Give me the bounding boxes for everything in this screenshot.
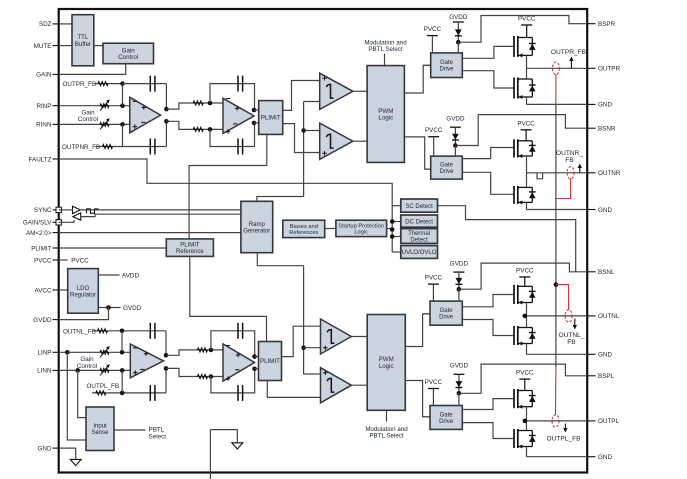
svg-text:PBTL Select: PBTL Select [368,46,402,53]
ground (left) [70,459,81,465]
pin BSPR [587,21,615,28]
wire U2 bottom feedback [210,123,255,147]
svg-text:PLIMIT: PLIMIT [261,115,281,122]
wire SYNC pin to buffer [59,209,73,211]
arrow OUTNL_FB sense [573,319,577,330]
wire bootstrap to BS pin (stage 3) [459,263,587,289]
wire RINN input [59,123,130,125]
wire bootstrap to BS pin (stage 4) [459,364,587,393]
wire cap to op-amp output + [165,84,167,110]
power net PVCC (gate drive 1) [424,26,442,53]
wire biases to startup logic [325,228,336,230]
transistor Q6 (low side) body diode [529,328,536,344]
wire bus to UVLO/OVLO [392,251,401,253]
wire PWM to Gate Drive 1 [404,65,430,93]
svg-text:LDO: LDO [77,286,90,292]
power net GVDD (stage 3) [450,260,469,289]
svg-text:PVCC: PVCC [518,16,536,23]
wire output line (stage 3) [527,315,588,317]
wire Gate Drive 4 to low-side gate [462,423,514,439]
svg-text:GND: GND [598,102,612,109]
variable resistor RINP gain [100,104,109,108]
svg-text:GVDD: GVDD [449,14,468,21]
transistor Q6 (low side) [514,326,532,346]
Thermal Detect block [401,229,438,244]
transistor Q7 (high side) body diode [529,391,536,407]
PWM Logic block (left ch) [367,315,405,411]
wire GND line (stage 3) [527,353,588,355]
diode bootstrap D3 [456,278,463,284]
diode bootstrap D4 [456,381,463,387]
Gain Control block (top) [103,43,154,64]
ground (center) [232,443,243,449]
svg-text:PVCC: PVCC [34,257,52,264]
svg-text:OUTNL_FB: OUTNL_FB [63,328,96,335]
pin GND (stage2) [587,207,612,214]
resistor OUTPNR_FB [103,145,113,149]
wire PWM input to Gate Drive 4 [423,416,430,418]
svg-text:Drive: Drive [439,315,454,321]
arrow OUTNR_FB sense [578,164,582,173]
wire low-side source to GND (stage 4) [526,447,528,457]
wire ramp to CMP3 + [304,347,321,349]
UVLO/OVLO block [401,246,438,259]
svg-text:OUTPL_FB: OUTPL_FB [87,383,120,390]
power net PVCC (gate drive 3) [425,275,443,302]
transistor Q3 (high side) body diode [529,141,536,156]
wire GVDD to Gate Drive 2 [454,146,456,157]
wire PWM to Gate Drive 4 [405,381,430,417]
wire red feedback OUTPL [555,367,557,415]
svg-text:Gate: Gate [440,163,454,169]
resistor OUTPR_FB [98,82,108,86]
power net PVCC (gate drive 4) [425,379,443,406]
svg-text:Gate: Gate [440,308,454,314]
node U3 out+ [164,353,169,358]
svg-text:GND: GND [598,352,612,359]
wire ramp to CMP4 - [304,372,321,375]
svg-text:GND: GND [598,454,612,461]
wire CMP4 out to PWM logic [351,384,367,386]
wire cap to op-amp output - [165,121,167,146]
node OUTNL_FB junction [120,329,125,334]
wire output to low-side drain (stage 3) [526,316,528,328]
node output junction (stage 4) [523,419,528,424]
LDO Regulator block [68,269,99,314]
wire CMP3 out to PWM logic [351,336,367,338]
wire Gate Drive 1 to low-side gate [462,71,514,88]
svg-text:OUTPR_FB: OUTPR_FB [551,49,587,56]
wire AVDD output [98,274,119,276]
svg-text:AVDD: AVDD [122,273,139,280]
transistor Q5 (high side) [514,285,532,305]
wire output line (stage 1) [527,67,588,69]
svg-text:LINP: LINP [38,350,52,357]
power net PVCC (output FETs stage 4) [516,370,534,391]
wire OUTPNR_FB net [96,146,167,148]
wire PWM input to Gate Drive 1 [423,64,431,66]
svg-text:Input: Input [93,424,107,430]
power net PVCC (output FETs stage 2) [517,120,535,141]
svg-text:Thermal: Thermal [408,231,430,237]
SC Detect block [401,199,438,212]
svg-text:GAIN: GAIN [36,72,52,79]
wire OUTPR_FB net [95,83,123,85]
svg-text:BSNL: BSNL [598,269,615,276]
wire ramp to CMP1 - [304,101,320,103]
wire high-side source to output (stage 4) [526,407,528,421]
power net PVCC (output FETs stage 1) [518,16,536,38]
pin GVDD [33,317,58,324]
variable resistor RINN gain [100,123,109,127]
op-amp U3 (left ch first stage) [130,344,163,378]
svg-text:GVDD: GVDD [450,260,469,267]
wire LINP to Input Sense [67,352,86,440]
capacitor feedback (LINP path) [150,323,155,339]
pin RINP [36,103,58,110]
wire output to low-side drain (stage 4) [526,421,528,431]
node U1 out+ [164,107,169,112]
resistor second stage bottom (right ch) [193,127,203,131]
wire Gate Drive 4 to high-side gate [462,399,514,410]
node RINN junction [120,122,125,127]
svg-text:PLIMIT: PLIMIT [31,245,51,252]
wire GND line (stage 4) [527,456,588,458]
transistor Q3 (high side) [514,139,532,158]
wire U3+ to second stage [166,350,223,355]
svg-text:RINN: RINN [36,122,52,129]
wire U4- to PLIMIT [255,368,259,370]
wire Gate Drive 1 to high-side gate [462,46,514,58]
wire OUTNR drain join notch [537,173,543,179]
svg-text:PVCC: PVCC [71,258,89,265]
wire low-side source to GND (stage 2) [526,202,528,209]
svg-text:References: References [289,230,318,236]
power net GVDD (stage 4) [450,362,469,393]
transistor Q4 (low side) body diode [529,187,536,202]
wire U2- to PLIMIT [254,122,259,124]
comparator CMP1 (right ch P) [320,73,353,109]
svg-text:OUTNR: OUTNR [598,170,621,177]
svg-text:GVDD: GVDD [450,362,469,369]
node bootstrap junction (stage 3) [457,287,462,292]
wire FAULTZ to protection bus [59,159,393,252]
svg-text:PVCC: PVCC [425,379,443,386]
comparator CMP3 (left ch N) [321,319,352,354]
wire output line (stage 2) [527,172,588,174]
wire GAIN/SLV pin to buffer [59,220,74,222]
wire bus to DC Detect [392,221,401,223]
capacitor U2 bottom feedback [238,139,243,155]
op-amp U2 (right ch second stage) [223,98,254,133]
wire U4 top feedback [211,331,255,357]
capacitor U4 top feedback [238,323,243,339]
pin OUTPR [587,66,620,73]
wire output line (stage 4) [527,420,588,422]
svg-text:Reference: Reference [176,249,204,255]
node U2 out- [252,121,257,126]
pin GAIN/SLV [23,220,61,227]
transistor Q1 (high side) [514,36,532,57]
pin GAIN [36,72,59,79]
wire RINP input [59,105,130,107]
wire red feedback OUTNR [556,178,571,198]
wire PLIMIT Reference to PLIMIT (left ch) [190,256,267,341]
wire cap to op-amp output + [165,331,167,356]
pin OUTNL [587,313,620,320]
pin GND (stage4) [587,454,612,461]
wire GVDD to Gate Drive 1 [457,42,459,53]
power net PVCC (output FETs stage 3) [516,268,534,287]
svg-text:BSPL: BSPL [598,373,615,380]
svg-text:PBTL Select: PBTL Select [369,433,403,440]
pin PVCC [34,257,59,264]
svg-text:GVDD: GVDD [123,305,142,312]
svg-text:GND: GND [38,445,52,452]
wire low-side source to GND (stage 1) [526,97,528,104]
wire Gate Drive 2 to high-side gate [462,148,514,159]
buffer GAIN/SLV [73,213,81,220]
svg-text:Select: Select [149,434,167,441]
power net PVCC (gate drive 2) [425,127,443,156]
wire SC Detect to output stage bus [438,206,576,272]
wire Ramp Generator top feed [257,197,304,202]
wire OUTPL_FB to LINN node [121,370,123,393]
capacitor feedback (RINN path) [150,139,155,155]
node bootstrap junction (stage 1) [456,40,461,45]
svg-text:Generator: Generator [243,229,270,235]
svg-text:OUTPNR_FB: OUTPNR_FB [62,144,100,151]
svg-text:Gate: Gate [440,60,454,66]
svg-text:PVCC: PVCC [516,370,534,377]
wire Gate Drive 3 to low-side gate [462,320,514,336]
transistor Q7 (high side) [514,389,532,409]
svg-text:GVDD: GVDD [33,317,52,324]
wire Gate Drive 2 to low-side gate [462,172,514,194]
wire PLIMIT to comparator1 + [283,81,320,111]
node U4 out- [252,367,257,372]
svg-text:Logic: Logic [354,230,368,236]
svg-text:Sense: Sense [91,430,109,436]
wire LINN to Input Sense [78,370,86,417]
svg-text:OUTPR: OUTPR [598,66,620,73]
feedback tap ellipse OUTNR [567,167,574,179]
svg-text:Control: Control [77,363,97,370]
wire OUTNL_FB to LINP node [121,331,123,353]
wire Ramp Generator output to ramp bus [257,253,303,266]
wire bootstrap to BS pin (stage 2) [455,115,587,146]
svg-text:Regulator: Regulator [70,292,96,298]
feedback tap ellipse OUTPL [552,415,559,427]
svg-text:Control: Control [78,116,98,123]
wire PLIMIT to comparator4 + [267,381,320,398]
wire center ground stub through border [209,430,211,479]
pin BSNL [587,269,615,276]
wire PLIMIT to comparator3 [282,326,321,356]
wire Input Sense to PBTL Select [114,429,146,431]
pin LINN [37,368,59,375]
svg-text:PBTL: PBTL [149,427,165,434]
wire bootstrap to BS pin (stage 1) [458,16,587,43]
node RINP junction [120,103,125,108]
wire Gate Drive 3 to high-side gate [462,295,514,307]
svg-text:GVDD: GVDD [446,116,465,123]
svg-text:Detect: Detect [410,238,428,244]
pin GND (stage3) [587,352,612,359]
pin SYNC [34,207,61,214]
svg-text:BSNR: BSNR [598,126,616,133]
wire PWM to Gate Drive 3 [405,314,430,347]
pin BSPL [587,373,614,380]
wire low-side source to GND (stage 3) [526,344,528,355]
chip boundary [59,9,588,473]
wire red feedback OUTNL [556,285,569,311]
wire ramp vertical bus (lower) [303,266,305,372]
PLIMIT Reference block [166,239,213,257]
wire OUTPL_FB net [92,392,166,394]
wire TTL Buffer to Gain Control [94,45,103,47]
Gate Drive block 1 [431,53,463,78]
pin LINP [38,350,59,357]
node U1 out- [164,119,169,124]
node U4 out+ [252,354,257,359]
wire MUTE to TTL Buffer [59,45,72,47]
wire red feedback OUTPR [555,74,557,105]
wire GND line (stage 1) [527,103,588,105]
transistor Q2 (low side) body diode [529,79,536,97]
pin OUTPL [587,418,619,425]
wire OUTNL_FB net [93,330,167,332]
Input Sense block [86,407,114,451]
square wave symbol [87,209,99,213]
wire PVCC pin stub [59,259,68,261]
op-amp U1 (right ch first stage) [130,97,161,133]
transistor Q5 (high side) body diode [529,286,536,302]
wire to center ground [210,430,237,443]
wire GVDD to pin [59,308,109,320]
wire SDZ to TTL Buffer [59,23,72,25]
node protection bus 1 [390,219,395,224]
Ramp Generator block [241,201,273,252]
pin AVCC [34,287,58,294]
svg-text:PVCC: PVCC [425,127,443,134]
capacitor U4 bottom feedback [238,385,243,401]
transistor Q2 (low side) [514,78,532,100]
pin MUTE [34,43,59,50]
buffer SYNC [73,206,81,213]
svg-text:PVCC: PVCC [517,120,535,127]
svg-text:UVLO/OVLO: UVLO/OVLO [402,250,437,256]
svg-text:BSPR: BSPR [598,21,616,28]
wire AM<2:0> to Ramp Generator [59,232,241,234]
node U4 in- junction [209,348,214,353]
node LINN junction [120,368,125,373]
wire PLIMIT pin to PLIMIT Reference [59,247,167,249]
svg-text:GND: GND [598,207,612,214]
wire PLIMIT to PLIMIT Reference [189,134,267,239]
wire U1+ to second stage [166,103,223,109]
wire high-side source to output (stage 3) [526,303,528,316]
svg-text:Biases and: Biases and [290,224,318,230]
node U2 in- junction [208,101,213,106]
svg-text:SC Detect: SC Detect [405,204,433,210]
wire PWM input to Gate Drive 2 [425,168,431,170]
node OUTPL_FB junction [120,391,125,396]
wire SYNC buffer to Ramp Generator [80,209,241,211]
capacitor feedback (LINN path) [150,385,155,401]
svg-text:MUTE: MUTE [34,43,52,50]
node protection bus 2 [390,227,395,232]
PWM Logic block (right ch) [367,66,404,163]
transistor Q4 (low side) [514,186,532,205]
wire cap to op-amp output - [165,368,167,393]
svg-text:OUTNL: OUTNL [598,313,620,320]
DC Detect block [401,215,438,227]
svg-text:LINN: LINN [37,368,52,375]
pin FAULTZ [29,156,59,163]
power net GVDD (stage 1) [449,14,468,42]
svg-text:PVCC: PVCC [424,26,442,33]
svg-text:OUTPL: OUTPL [598,418,619,425]
wire LINP input [59,351,131,353]
resistor OUTNL_FB [98,329,108,333]
transistor Q8 (low side) body diode [529,431,536,447]
arrow OUTPR_FB sense [569,57,573,69]
wire GND pin to ground [59,448,76,459]
op-amp U4 (left ch second stage) [223,344,255,381]
power net GVDD (stage 2) [446,116,465,146]
wire CMP1 out to PWM logic [353,90,367,92]
resistor OUTPL_FB [96,391,106,395]
wire U1- to second stage [166,121,223,129]
wire bus to SC Detect [392,205,401,207]
pin BSNR [587,126,616,133]
svg-text:Drive: Drive [439,419,454,425]
wire U2+ to PLIMIT [254,109,259,111]
node ramp tap CMP3 [301,345,306,350]
resistor second stage top (left ch) [198,348,208,352]
transistor Q8 (low side) [514,429,532,449]
svg-text:Drive: Drive [439,169,454,175]
PLIMIT block (right ch) [259,101,283,135]
svg-text:PLIMIT: PLIMIT [180,243,200,249]
node output junction (stage 3) [523,314,528,319]
Startup Protection Logic block [336,220,387,236]
node LINN sense tap [75,368,80,373]
diode bootstrap D1 [455,29,462,35]
wire output to low-side drain (stage 1) [526,68,528,79]
svg-text:DC Detect: DC Detect [405,219,433,225]
wire high-side source to output (stage 2) [526,156,528,173]
pin GND (left) [38,445,59,452]
pin SDZ [39,21,59,28]
svg-text:OUTNL_: OUTNL_ [558,332,584,339]
svg-text:FAULTZ: FAULTZ [29,156,52,163]
wire PLIMIT to comparator2 + [283,124,320,153]
arrow OUTPL_FB sense [563,424,567,433]
wire Gain Control to GAIN pin [59,64,126,75]
svg-text:SDZ: SDZ [39,21,52,28]
wire GAIN/SLV buffer to Ramp Generator [81,214,241,216]
wire U3- to second stage [166,368,223,376]
node OUTPR_FB junction [120,81,125,86]
Gate Drive block 3 [430,301,462,325]
svg-text:AM<2:0>: AM<2:0> [26,230,52,237]
wire U4 bottom feedback [211,369,255,393]
PLIMIT block (left ch) [259,342,282,381]
svg-text:SYNC: SYNC [34,207,52,214]
capacitor feedback (RINP path) [150,76,155,92]
